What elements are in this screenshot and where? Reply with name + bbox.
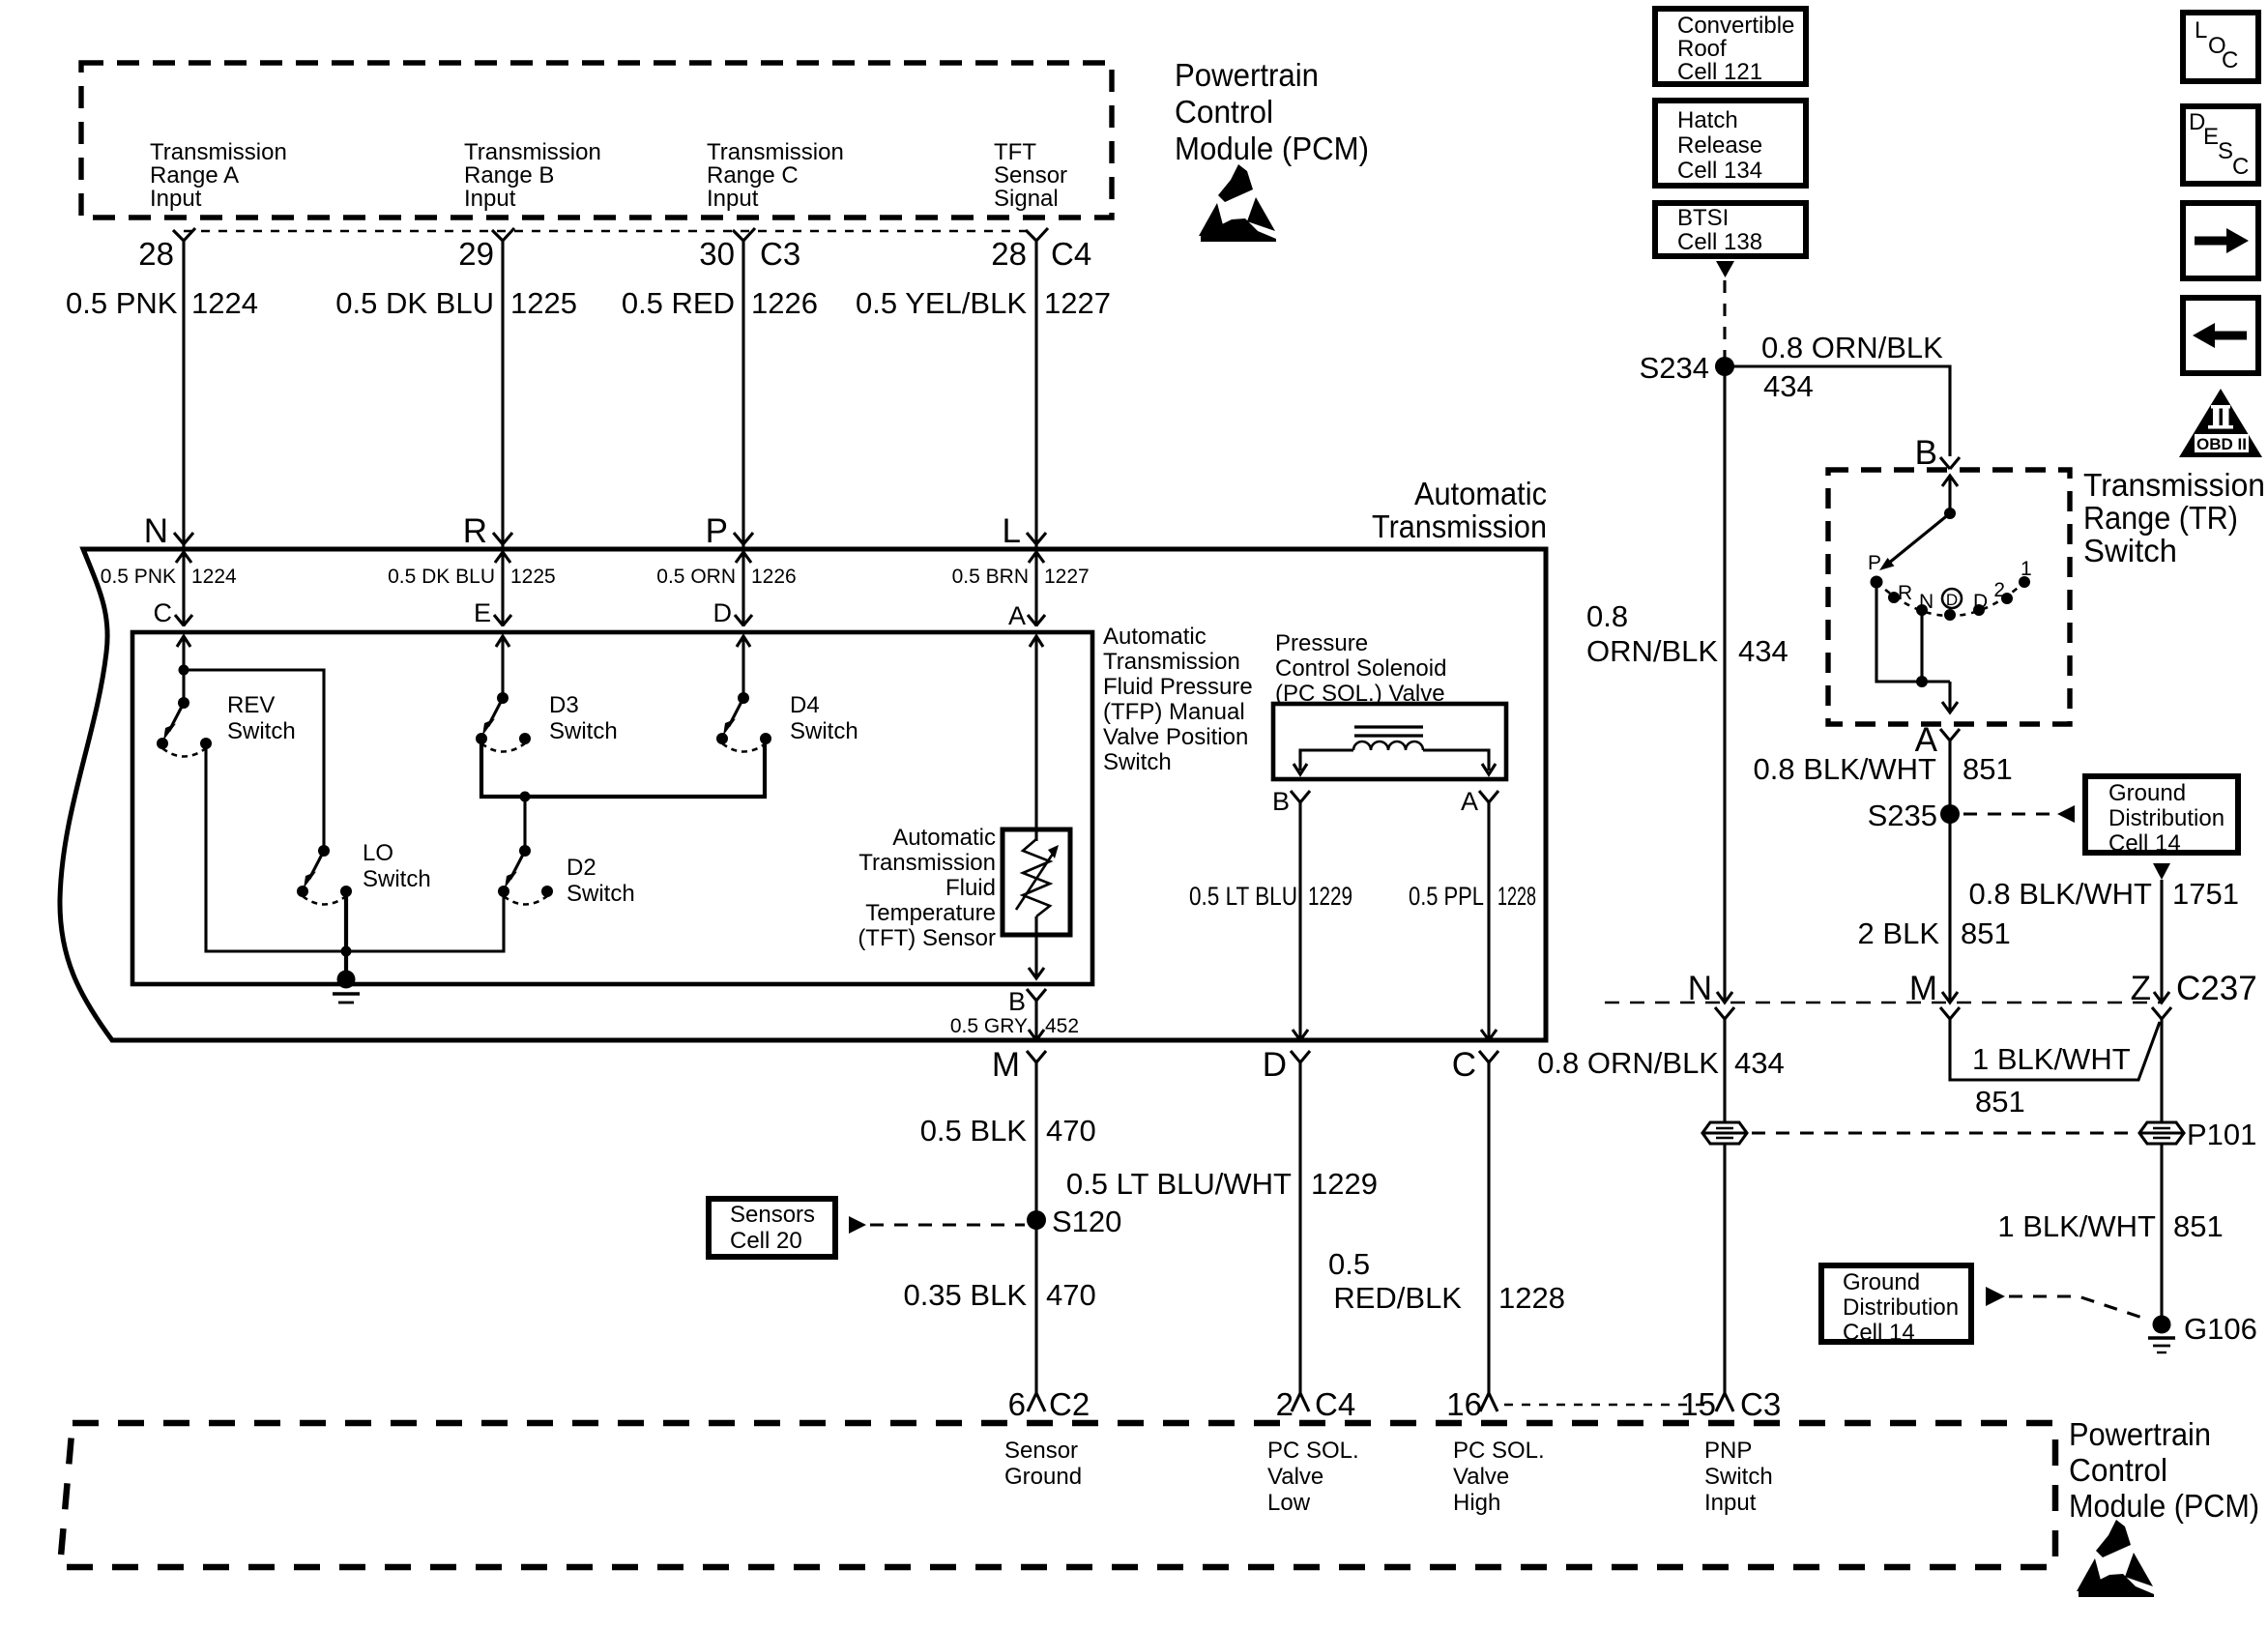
wire 0.5 DK BLU 1225 (PCM 29 to R) <box>501 241 504 547</box>
svg-text:PressureControl Solenoid(PC SO: PressureControl Solenoid(PC SOL.) Valve <box>1275 630 1446 707</box>
arrow and dashed ref to S120 <box>849 1216 1025 1234</box>
wire 0.5 LT BLU 1229 <box>1189 802 1352 1040</box>
svg-text:1227: 1227 <box>1044 566 1090 588</box>
svg-text:C: C <box>1452 1046 1476 1084</box>
pin 15 C3 <box>1680 1386 1781 1422</box>
svg-text:TransmissionRange CInput: TransmissionRange CInput <box>707 139 844 212</box>
svg-text:Transmission: Transmission <box>2083 467 2265 503</box>
TFP manual valve position switch inner box <box>132 632 1092 984</box>
svg-text:16: 16 <box>1446 1386 1482 1422</box>
inline connector P101 (left) <box>1702 1122 1747 1144</box>
pin 28 C4 connector <box>991 228 1091 272</box>
PCM bottom dashed box <box>60 1423 2055 1567</box>
svg-text:28: 28 <box>138 236 174 272</box>
svg-text:1226: 1226 <box>751 286 818 320</box>
svg-text:434: 434 <box>1738 634 1788 668</box>
DESC legend box <box>2183 106 2258 184</box>
svg-text:0.8 BLK/WHT: 0.8 BLK/WHT <box>1969 877 2153 911</box>
pin 6 C2 <box>1008 1386 1090 1422</box>
wire Z continues through P101 <box>1997 1019 2223 1317</box>
thin dashed row pin16 to pin15 <box>1504 1404 1711 1407</box>
wire 0.8 BLK/WHT 851 <box>1754 741 2013 1003</box>
svg-text:C237: C237 <box>2176 970 2257 1007</box>
pin N (C237) <box>1688 970 1734 1019</box>
svg-text:M: M <box>1909 970 1937 1007</box>
svg-text:C3: C3 <box>760 236 800 272</box>
svg-text:1 BLK/WHT: 1 BLK/WHT <box>1997 1209 2156 1243</box>
svg-text:C: C <box>154 598 173 627</box>
D2 switch <box>498 845 553 905</box>
svg-text:ConvertibleRoofCell 121: ConvertibleRoofCell 121 <box>1677 13 1794 85</box>
svg-text:P: P <box>706 512 728 550</box>
wire D3 contact to D4 contact <box>481 739 765 797</box>
svg-text:SensorGround: SensorGround <box>1004 1438 1082 1490</box>
svg-text:Control: Control <box>1175 94 1273 130</box>
svg-text:0.5 YEL/BLK: 0.5 YEL/BLK <box>856 286 1027 320</box>
LOC legend box <box>2183 13 2258 81</box>
svg-text:A: A <box>1008 601 1026 630</box>
wire TFT to pin B with down arrow <box>1029 916 1044 978</box>
pin 2 C4 <box>1276 1386 1356 1422</box>
ground (inner box) <box>333 971 360 1003</box>
pin 28 (C3) connector <box>138 228 195 272</box>
right arrow legend box <box>2183 203 2258 278</box>
svg-text:0.5 PNK: 0.5 PNK <box>101 566 176 588</box>
svg-text:1227: 1227 <box>1044 286 1111 320</box>
svg-text:PC SOL.ValveLow: PC SOL.ValveLow <box>1267 1438 1359 1516</box>
svg-text:D: D <box>1263 1046 1287 1084</box>
REV switch <box>157 697 212 757</box>
svg-text:15: 15 <box>1680 1386 1716 1422</box>
svg-text:1228: 1228 <box>1497 882 1536 911</box>
OBD II symbol <box>2179 389 2262 457</box>
svg-text:LOSwitch: LOSwitch <box>363 840 431 892</box>
svg-text:R: R <box>463 512 487 550</box>
svg-text:Z: Z <box>2131 970 2151 1007</box>
pin A (inner box) <box>1008 601 1045 630</box>
Sensors Cell 20 box <box>709 1199 835 1257</box>
BTSI Cell 138 box <box>1655 203 1806 256</box>
wire N continues to P101 <box>1723 1019 1726 1122</box>
Ground Distribution Cell 14 box (lower) <box>1821 1265 1971 1346</box>
pin R <box>463 512 512 626</box>
svg-text:PC SOL.ValveHigh: PC SOL.ValveHigh <box>1453 1438 1545 1516</box>
wire junction to LO switch <box>184 670 324 846</box>
LO switch <box>297 845 352 905</box>
svg-text:B: B <box>1272 787 1290 816</box>
svg-text:C2: C2 <box>1049 1386 1090 1422</box>
pin C (bottom) <box>1452 1046 1498 1084</box>
svg-text:0.5: 0.5 <box>1328 1247 1370 1281</box>
wire 0.5 RED/BLK 1228 <box>1328 1062 1565 1393</box>
pin M <box>992 1046 1046 1084</box>
svg-text:C4: C4 <box>1051 236 1091 272</box>
svg-text:A: A <box>1461 787 1478 816</box>
svg-text:S: S <box>2218 138 2233 164</box>
wire 0.5 BLK 470 <box>920 1062 1096 1220</box>
svg-text:1225: 1225 <box>510 286 577 320</box>
svg-text:0.8: 0.8 <box>1586 599 1628 633</box>
svg-text:Temperature: Temperature <box>865 900 996 926</box>
svg-text:M: M <box>992 1046 1020 1084</box>
wire 0.35 BLK 470 <box>903 1220 1095 1393</box>
pin 29 connector <box>458 228 514 272</box>
TFT sensor (variable resistor) <box>1003 829 1070 935</box>
wire 0.8 BLK/WHT 1751 <box>1969 877 2239 1003</box>
svg-text:L: L <box>1003 512 1021 550</box>
svg-text:1229: 1229 <box>1311 1167 1378 1201</box>
svg-text:0.5 RED: 0.5 RED <box>622 286 735 320</box>
wire into TFT sensor <box>1030 636 1043 841</box>
pin B (inner box bottom) <box>1008 987 1046 1040</box>
svg-text:1229: 1229 <box>1308 882 1352 911</box>
svg-text:D: D <box>1946 591 1958 609</box>
svg-text:N: N <box>1688 970 1712 1007</box>
svg-text:ORN/BLK: ORN/BLK <box>1586 634 1718 668</box>
P101 dashed row <box>1752 1131 2133 1134</box>
pin A (TR switch) <box>1915 721 1960 759</box>
svg-text:GroundDistributionCell 14: GroundDistributionCell 14 <box>1843 1269 1959 1346</box>
TR contact R <box>1888 582 1912 604</box>
svg-text:Powertrain: Powertrain <box>1175 57 1319 93</box>
svg-text:P: P <box>1868 552 1881 574</box>
junction dot at LO ground crossing <box>341 946 352 957</box>
wire 1 BLK/WHT 851 (M branch) <box>1950 1019 2160 1119</box>
pin C <box>154 598 193 627</box>
svg-text:1 BLK/WHT: 1 BLK/WHT <box>1972 1042 2131 1076</box>
left arrow legend box <box>2183 298 2258 373</box>
dashed ref to Ground Distribution <box>1963 805 2075 823</box>
svg-text:Cell 20: Cell 20 <box>730 1228 802 1254</box>
svg-text:TFTSensorSignal: TFTSensorSignal <box>994 139 1067 212</box>
svg-text:851: 851 <box>1975 1085 2025 1119</box>
splice S235 <box>1940 804 1960 824</box>
svg-text:0.8 ORN/BLK: 0.8 ORN/BLK <box>1537 1046 1719 1080</box>
svg-text:GroundDistributionCell 14: GroundDistributionCell 14 <box>2108 780 2224 857</box>
svg-text:AutomaticTransmissionFluid Pre: AutomaticTransmissionFluid Pressure(TFP)… <box>1103 624 1253 775</box>
node junction at wire1 <box>179 665 189 676</box>
svg-text:434: 434 <box>1763 369 1814 403</box>
splice S234 <box>1715 357 1734 376</box>
pin 30 C3 connector <box>699 228 800 272</box>
svg-text:1224: 1224 <box>191 286 258 320</box>
TR switch rotor arm <box>1879 508 1956 570</box>
svg-text:REVSwitch: REVSwitch <box>227 692 296 744</box>
wire 0.5 RED 1226 (PCM 30 to P) <box>741 241 744 547</box>
Ground Distribution Cell 14 box (right) <box>2085 776 2238 857</box>
junction dot above D2 <box>520 792 531 802</box>
svg-text:434: 434 <box>1734 1046 1785 1080</box>
wire junction to D2 pivot <box>523 797 526 851</box>
svg-text:851: 851 <box>1963 752 2013 786</box>
wire 0.5 LT BLU/WHT 1229 <box>1066 1062 1378 1393</box>
svg-text:BTSICell 138: BTSICell 138 <box>1677 205 1762 255</box>
Transmission Range (TR) Switch dashed box <box>1828 470 2070 724</box>
pin D (inner box) <box>713 598 753 627</box>
svg-text:0.5 DK BLU: 0.5 DK BLU <box>335 286 494 320</box>
solenoid core <box>1354 727 1423 736</box>
svg-text:28: 28 <box>991 236 1027 272</box>
pin Z (C237) <box>2131 970 2257 1019</box>
svg-text:Automatic: Automatic <box>892 825 996 851</box>
wire S234 to TR switch B with label 0.8 ORN/BLK 434 <box>1725 331 1950 456</box>
svg-text:D3Switch: D3Switch <box>549 692 618 744</box>
svg-text:0.5 GRY: 0.5 GRY <box>950 1015 1028 1037</box>
svg-text:P101: P101 <box>2187 1118 2256 1151</box>
svg-text:452: 452 <box>1045 1015 1079 1037</box>
connector C237 dashed row <box>1605 1002 2162 1004</box>
TR contacts dashed arc <box>1876 582 2024 616</box>
wire junction down to REV pivot <box>182 670 185 703</box>
svg-text:0.8 ORN/BLK: 0.8 ORN/BLK <box>1761 331 1943 364</box>
pin A (PC SOL) <box>1461 787 1498 816</box>
TR contact 2 <box>1993 579 2013 604</box>
svg-text:E: E <box>474 598 491 627</box>
solenoid leads with arrows <box>1294 750 1496 774</box>
ground G106 <box>2148 1312 2257 1352</box>
connector C3/C4 thin dashed row <box>184 230 1036 233</box>
ESD symbol top <box>1199 164 1276 242</box>
svg-text:OBD II: OBD II <box>2196 435 2247 453</box>
svg-text:Automatic: Automatic <box>1414 476 1547 511</box>
svg-text:0.35 BLK: 0.35 BLK <box>903 1278 1027 1312</box>
Hatch Release Cell 134 box <box>1655 101 1806 186</box>
svg-text:S120: S120 <box>1052 1205 1121 1238</box>
wire label 2 BLK 851 <box>1858 916 2011 950</box>
svg-text:Module (PCM): Module (PCM) <box>2069 1488 2259 1524</box>
svg-text:S234: S234 <box>1640 351 1709 385</box>
svg-text:Sensors: Sensors <box>730 1202 815 1228</box>
svg-text:29: 29 <box>458 236 494 272</box>
pin 16 <box>1446 1386 1497 1422</box>
svg-text:Powertrain: Powertrain <box>2069 1416 2211 1452</box>
svg-text:1226: 1226 <box>751 566 797 588</box>
svg-text:1751: 1751 <box>2172 877 2239 911</box>
svg-text:L: L <box>2195 17 2207 44</box>
wire 0.5 PNK 1224 (PCM 28 to N) <box>182 241 185 547</box>
arrow below Ground Distribution box <box>2153 863 2170 880</box>
svg-text:Transmission: Transmission <box>1372 509 1547 544</box>
svg-text:0.5 DK BLU: 0.5 DK BLU <box>388 566 495 588</box>
PCM top dashed box <box>81 63 1112 218</box>
svg-text:470: 470 <box>1046 1114 1096 1148</box>
wire 0.5 PPL 1228 <box>1409 802 1536 1040</box>
inline connector P101 (right) <box>2139 1122 2184 1144</box>
svg-text:Switch: Switch <box>2083 533 2177 568</box>
pin B (TR switch) <box>1915 434 1960 472</box>
svg-text:2 BLK: 2 BLK <box>1858 916 1940 950</box>
ESD symbol bottom <box>2077 1520 2154 1597</box>
D3 switch <box>476 692 531 752</box>
svg-text:851: 851 <box>2173 1209 2224 1243</box>
wire into D3 switch <box>496 636 509 698</box>
arrow and dashed ref to G106 <box>1986 1287 2148 1320</box>
svg-text:TransmissionRange AInput: TransmissionRange AInput <box>150 139 287 212</box>
pin E <box>474 598 511 627</box>
svg-text:470: 470 <box>1046 1278 1096 1312</box>
TR contact 1 <box>2019 558 2032 588</box>
svg-text:D: D <box>713 598 733 627</box>
svg-text:0.5 LT BLU/WHT: 0.5 LT BLU/WHT <box>1066 1167 1292 1201</box>
svg-text:B: B <box>1008 987 1026 1016</box>
pin B (PC SOL) <box>1272 787 1310 816</box>
wire 0.5 YEL/BLK 1227 (PCM 28 to L) <box>1034 241 1037 547</box>
pin N <box>144 512 193 626</box>
Convertible Roof Cell 121 box <box>1655 9 1806 85</box>
svg-text:0.5 ORN: 0.5 ORN <box>656 566 736 588</box>
wire 0.8 ORN/BLK 434 main drop <box>1586 366 1788 1003</box>
PC SOL valve box <box>1273 704 1506 779</box>
svg-text:C3: C3 <box>1740 1386 1781 1422</box>
splice S120 <box>1027 1210 1046 1230</box>
svg-text:Transmission: Transmission <box>858 850 996 876</box>
pin L <box>1003 512 1046 626</box>
svg-text:(TFT) Sensor: (TFT) Sensor <box>858 925 996 951</box>
TR contact circled D <box>1942 589 1962 621</box>
svg-text:6: 6 <box>1008 1386 1026 1422</box>
svg-text:PNPSwitchInput: PNPSwitchInput <box>1704 1438 1773 1516</box>
svg-text:0.5 BLK: 0.5 BLK <box>920 1114 1028 1148</box>
svg-text:0.8 BLK/WHT: 0.8 BLK/WHT <box>1754 752 1937 786</box>
D4 switch <box>716 692 771 752</box>
svg-text:0.5 PNK: 0.5 PNK <box>66 286 178 320</box>
TR contact N <box>1916 591 1934 616</box>
svg-text:RED/BLK: RED/BLK <box>1333 1281 1462 1315</box>
wire into REV switch <box>177 636 190 670</box>
pin P <box>706 512 753 626</box>
arrow from BTSI <box>1716 261 1734 277</box>
TR contact P <box>1868 552 1883 589</box>
svg-text:C: C <box>2222 47 2238 73</box>
TR contact D <box>1973 591 1988 616</box>
svg-text:Fluid: Fluid <box>945 875 996 901</box>
wire LO contact to ground <box>344 891 348 978</box>
svg-text:2: 2 <box>1276 1386 1294 1422</box>
svg-text:1225: 1225 <box>510 566 556 588</box>
TR wire P and N to output <box>1876 582 1958 712</box>
svg-text:D4Switch: D4Switch <box>790 692 858 744</box>
svg-text:C4: C4 <box>1315 1386 1355 1422</box>
wire label 0.8 ORN/BLK 434 (bottom) <box>1537 1046 1785 1080</box>
wire 15 to PCM <box>1723 1144 1726 1393</box>
svg-text:C: C <box>2232 154 2249 180</box>
svg-text:E: E <box>2203 124 2219 150</box>
svg-text:1224: 1224 <box>191 566 237 588</box>
pin D (bottom) <box>1263 1046 1310 1084</box>
svg-text:1228: 1228 <box>1498 1281 1565 1315</box>
svg-text:0.5 LT BLU: 0.5 LT BLU <box>1189 882 1297 911</box>
wire REV contact to D2 contact <box>206 743 504 951</box>
svg-text:N: N <box>144 512 168 550</box>
svg-text:B: B <box>1915 434 1937 472</box>
svg-text:30: 30 <box>699 236 735 272</box>
svg-text:G106: G106 <box>2184 1312 2257 1346</box>
wire into D4 switch <box>737 636 750 698</box>
svg-text:0.5 PPL: 0.5 PPL <box>1409 882 1484 911</box>
TR switch entry arrow <box>1942 476 1958 513</box>
svg-text:851: 851 <box>1961 916 2011 950</box>
svg-text:Module (PCM): Module (PCM) <box>1175 131 1369 166</box>
svg-text:R: R <box>1898 582 1912 604</box>
pin M (C237) <box>1909 970 1960 1019</box>
svg-text:S235: S235 <box>1868 799 1937 832</box>
svg-text:HatchReleaseCell 134: HatchReleaseCell 134 <box>1677 107 1762 184</box>
solenoid coil <box>1353 741 1423 750</box>
svg-text:Control: Control <box>2069 1452 2167 1488</box>
dashed ref wire to S234 <box>1723 280 1726 358</box>
Automatic Transmission box (partial, squiggle left edge) <box>60 549 1546 1040</box>
svg-text:TransmissionRange BInput: TransmissionRange BInput <box>464 139 601 212</box>
svg-text:0.5 BRN: 0.5 BRN <box>952 566 1029 588</box>
svg-text:Range (TR): Range (TR) <box>2083 500 2238 536</box>
svg-text:D2Switch: D2Switch <box>567 855 635 907</box>
